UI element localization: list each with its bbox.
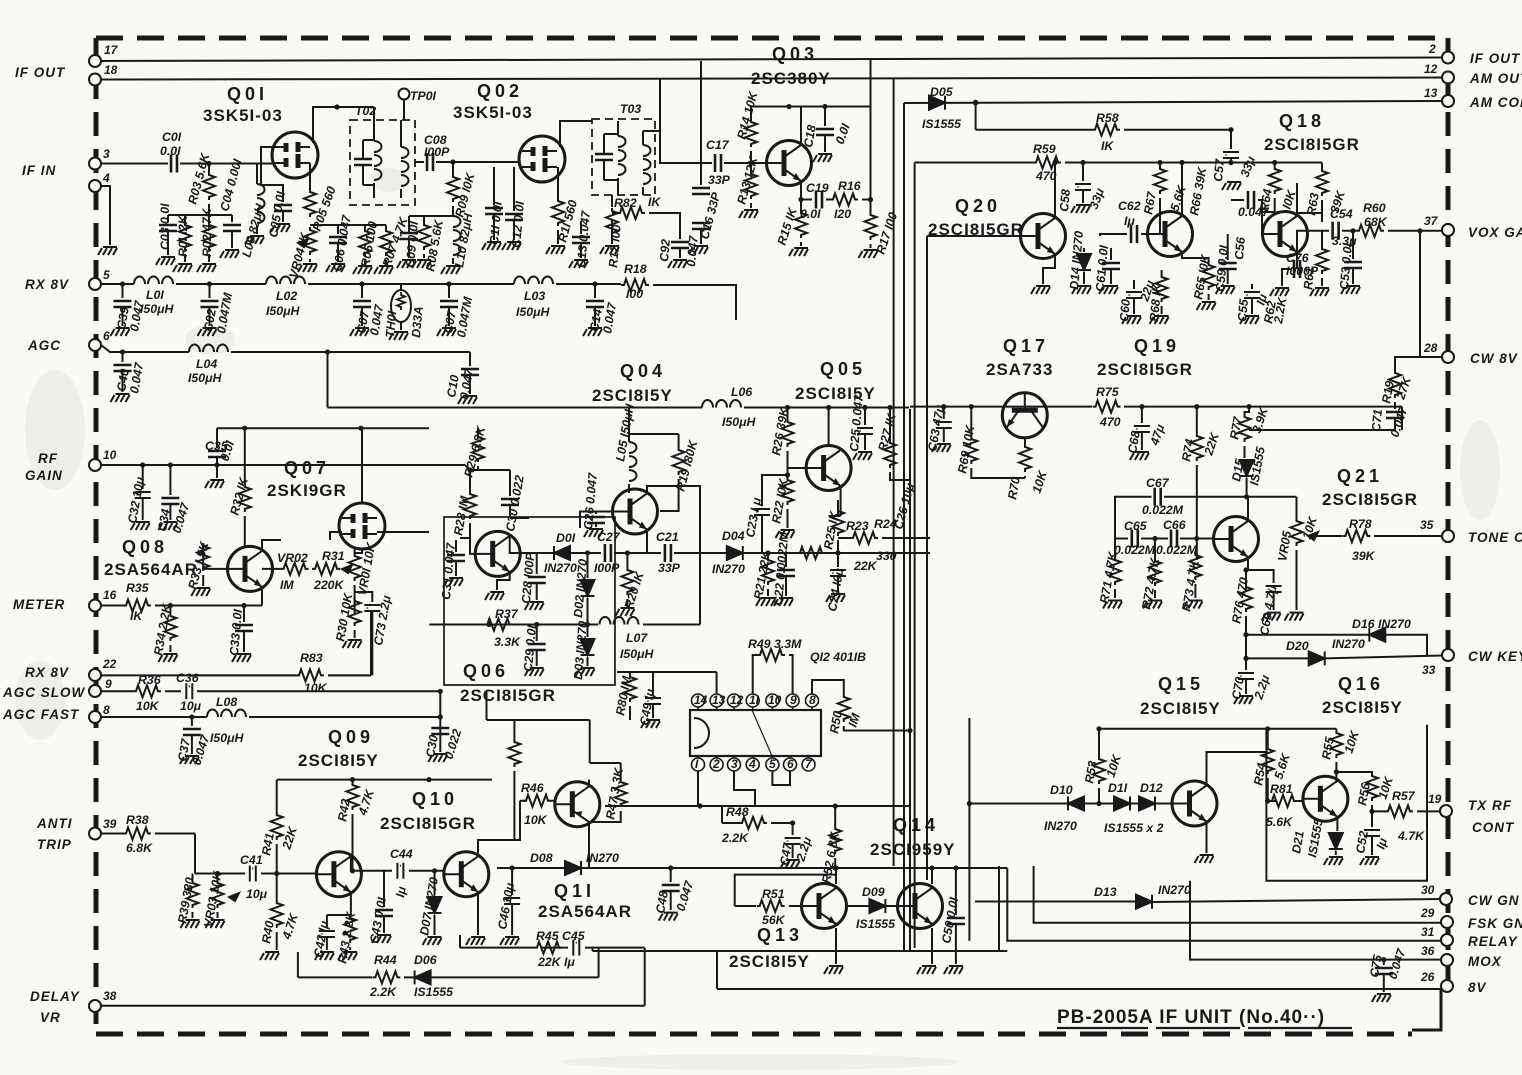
svg-text:37: 37 xyxy=(1424,214,1439,228)
resistor R80 xyxy=(617,672,653,674)
wire R59 rail xyxy=(915,162,1322,164)
svg-text:12: 12 xyxy=(1424,62,1438,76)
svg-text:C55: C55 xyxy=(1235,298,1251,322)
svg-text:8: 8 xyxy=(103,703,110,717)
svg-text:TRIP: TRIP xyxy=(37,837,72,852)
ground xyxy=(260,952,279,960)
svg-text:8: 8 xyxy=(809,693,816,707)
resistor R81 xyxy=(1268,800,1303,802)
svg-text:VR05: VR05 xyxy=(1275,530,1294,563)
capacitor C41 xyxy=(250,866,256,882)
wire RX8V rail xyxy=(101,284,736,320)
node xyxy=(214,462,219,467)
node xyxy=(438,714,443,719)
capacitor C44 xyxy=(397,863,403,879)
resistor R06 xyxy=(359,228,371,256)
svg-text:R44: R44 xyxy=(374,953,397,967)
node xyxy=(1194,404,1199,409)
resistor R50 xyxy=(838,694,850,722)
resistor R29 xyxy=(477,428,479,434)
resistor R15 xyxy=(800,200,802,211)
wire R51 feed xyxy=(735,875,836,906)
svg-text:R47 3.3K: R47 3.3K xyxy=(603,766,626,821)
wire Q13 bottom rail xyxy=(593,948,1008,951)
capacitor C26a xyxy=(596,512,613,528)
node xyxy=(1417,228,1422,233)
svg-text:D20: D20 xyxy=(1286,639,1309,653)
capacitor C14 xyxy=(594,284,596,298)
wire Q01 gate1 bias xyxy=(261,147,283,202)
capacitor C60 xyxy=(1133,280,1135,289)
svg-text:MOX: MOX xyxy=(1468,954,1502,969)
ground xyxy=(1234,696,1253,704)
transistor Q17 xyxy=(1002,393,1047,438)
capacitor C62 xyxy=(1131,225,1137,243)
svg-text:330: 330 xyxy=(876,549,897,563)
svg-text:2.2K: 2.2K xyxy=(1271,295,1290,325)
svg-text:T03: T03 xyxy=(620,102,641,116)
terminal 16 xyxy=(89,600,101,612)
wire Q21 emitter xyxy=(1246,557,1248,592)
svg-text:0.0I: 0.0I xyxy=(160,144,181,158)
resistor R56 xyxy=(1336,772,1372,775)
terminal 6 xyxy=(89,339,101,351)
svg-text:IS1555 x 2: IS1555 x 2 xyxy=(1104,821,1164,835)
svg-text:RX 8V: RX 8V xyxy=(25,665,69,680)
terminal 29 xyxy=(1441,916,1453,928)
ground xyxy=(1150,316,1169,324)
svg-text:2.2μ: 2.2μ xyxy=(793,835,814,864)
capacitor C55 xyxy=(1251,284,1253,289)
node xyxy=(833,865,838,870)
svg-text:C65: C65 xyxy=(1124,519,1147,533)
svg-text:2.2K: 2.2K xyxy=(369,985,397,999)
svg-text:2SCI959Y: 2SCI959Y xyxy=(870,840,956,859)
node xyxy=(486,622,491,627)
wire bus F xyxy=(909,409,911,951)
svg-text:IF IN: IF IN xyxy=(22,163,56,178)
T03 secondary xyxy=(643,145,651,184)
svg-text:L09 82μH: L09 82μH xyxy=(239,201,267,258)
box Q06 xyxy=(444,517,615,685)
transistor Q18 xyxy=(1263,212,1308,257)
capacitor C50 xyxy=(955,868,957,915)
wire pin1 xyxy=(697,771,699,806)
wire trip row xyxy=(195,873,317,875)
svg-text:0.047: 0.047 xyxy=(190,732,213,767)
wire Q15 collector xyxy=(1207,752,1268,785)
node xyxy=(350,777,355,782)
svg-text:D08: D08 xyxy=(530,851,553,865)
node xyxy=(1246,404,1251,409)
node xyxy=(798,197,803,202)
wire AGC FAST xyxy=(101,716,440,718)
svg-text:R58: R58 xyxy=(1096,111,1119,125)
node xyxy=(350,868,355,873)
diode D02 xyxy=(587,553,589,578)
wire AGC row xyxy=(101,345,470,408)
svg-text:DELAY: DELAY xyxy=(30,989,81,1004)
wire Q11 collector xyxy=(588,822,590,868)
terminal 13 xyxy=(1442,95,1454,107)
ground xyxy=(525,668,544,676)
svg-text:R45 C45: R45 C45 xyxy=(536,929,585,943)
ground xyxy=(1341,286,1360,294)
svg-text:C62: C62 xyxy=(1118,199,1141,213)
wire Q07 drain xyxy=(355,428,429,553)
pot VR02 xyxy=(262,540,281,551)
ground xyxy=(502,242,521,250)
svg-text:C60: C60 xyxy=(1117,298,1133,322)
resistor R18 xyxy=(621,279,649,291)
wire Q10 emitter xyxy=(477,892,479,935)
svg-text:30: 30 xyxy=(1421,883,1435,897)
svg-text:R78: R78 xyxy=(1349,517,1372,531)
resistor R60 xyxy=(1356,225,1384,237)
node xyxy=(1157,160,1162,165)
ground xyxy=(546,246,565,254)
resistor R35 xyxy=(123,600,151,612)
resistor R58 xyxy=(1092,124,1120,136)
wire Q19 emitter xyxy=(1182,252,1209,262)
svg-text:0.0I: 0.0I xyxy=(800,207,821,221)
wire Q06 emitter xyxy=(497,572,510,590)
svg-text:2SCI8I5Y: 2SCI8I5Y xyxy=(1140,699,1221,718)
wire METER xyxy=(101,605,245,607)
diode D13 xyxy=(1136,895,1152,909)
svg-text:2SCI8I5GR: 2SCI8I5GR xyxy=(1264,135,1360,154)
inductor L04 xyxy=(189,345,228,353)
svg-text:D21: D21 xyxy=(1289,830,1307,855)
svg-text:5.6K: 5.6K xyxy=(1168,183,1190,213)
svg-text:0.047: 0.047 xyxy=(1386,946,1409,981)
capacitor C69 xyxy=(1246,570,1274,583)
transistor Q14 xyxy=(898,884,943,929)
ground xyxy=(158,522,177,530)
node xyxy=(1244,494,1249,499)
resistor R32 xyxy=(244,428,246,484)
svg-text:TP0I: TP0I xyxy=(410,89,437,103)
wire Q18 base xyxy=(1262,212,1275,234)
node xyxy=(426,777,431,782)
ground xyxy=(389,332,408,340)
IC top pins xyxy=(692,694,819,710)
node xyxy=(585,550,590,555)
ground xyxy=(131,522,150,530)
ground xyxy=(739,210,758,218)
capacitor C67 xyxy=(1155,488,1161,506)
resistor R67 xyxy=(1159,163,1161,167)
svg-text:Q09: Q09 xyxy=(328,727,374,747)
wire node 13 xyxy=(904,101,1442,103)
capacitor C11 xyxy=(493,167,495,205)
svg-text:QI2 401IB: QI2 401IB xyxy=(810,650,866,664)
resistor R33 xyxy=(203,543,228,569)
svg-text:R52 6.8K: R52 6.8K xyxy=(819,830,842,885)
svg-text:L06: L06 xyxy=(731,385,752,399)
svg-text:0.0I: 0.0I xyxy=(833,121,853,146)
REGION A LABELS xyxy=(114,81,761,401)
RIGHT TERMINALS xyxy=(1420,42,1522,995)
inductor L05 xyxy=(628,484,630,493)
ground xyxy=(180,756,199,764)
ground xyxy=(1324,857,1343,865)
REGION D : middle Q04-Q08 xyxy=(101,400,930,685)
svg-text:Iμ: Iμ xyxy=(1124,214,1135,228)
svg-text:L03: L03 xyxy=(524,289,545,303)
wire bus E xyxy=(926,236,928,880)
svg-text:Q06: Q06 xyxy=(463,661,509,681)
resistor R21 xyxy=(767,553,769,557)
svg-text:R65 I0K: R65 I0K xyxy=(1191,253,1213,301)
svg-text:IN270: IN270 xyxy=(544,561,577,575)
svg-text:3SK5I-03: 3SK5I-03 xyxy=(203,106,283,125)
wire pin8 xyxy=(812,680,844,694)
ground xyxy=(485,592,504,600)
ground xyxy=(298,264,317,272)
node xyxy=(1243,632,1248,637)
wire to C08 xyxy=(415,161,519,163)
wire Q01 drain xyxy=(313,107,374,143)
svg-text:D0I: D0I xyxy=(556,531,576,545)
ground xyxy=(1072,286,1091,294)
svg-text:2SA564AR: 2SA564AR xyxy=(538,902,632,921)
resistor R02 xyxy=(203,222,215,250)
svg-text:8V: 8V xyxy=(1468,980,1487,995)
svg-text:I20: I20 xyxy=(834,207,851,221)
node xyxy=(1350,228,1355,233)
terminal 18 xyxy=(89,74,101,86)
terminal 30 xyxy=(1440,893,1452,905)
node xyxy=(1194,536,1199,541)
capacitor C39 xyxy=(122,284,124,298)
svg-text:36: 36 xyxy=(1421,944,1435,958)
svg-text:47μ: 47μ xyxy=(1147,422,1167,448)
svg-text:R49 3.3M: R49 3.3M xyxy=(748,637,802,651)
svg-text:2SA564AR: 2SA564AR xyxy=(104,560,198,579)
svg-text:2.2μ: 2.2μ xyxy=(1251,673,1272,702)
svg-text:GAIN: GAIN xyxy=(25,468,63,483)
ground xyxy=(173,264,192,272)
ground xyxy=(315,952,334,960)
resistor R31 xyxy=(312,568,313,570)
node xyxy=(120,281,125,286)
svg-text:IF OUT: IF OUT xyxy=(15,65,66,80)
terminal 5 xyxy=(89,278,101,290)
svg-text:Q02: Q02 xyxy=(477,81,523,101)
node xyxy=(1096,726,1101,731)
svg-text:IS1555: IS1555 xyxy=(414,985,453,999)
svg-text:IM: IM xyxy=(846,711,864,729)
svg-text:6: 6 xyxy=(103,329,110,343)
svg-text:4.7K: 4.7K xyxy=(279,911,301,942)
node xyxy=(1080,160,1085,165)
ground xyxy=(191,588,210,596)
svg-text:C03 0.0I: C03 0.0I xyxy=(158,203,172,250)
wire R45 row xyxy=(460,935,645,948)
capacitor C92 xyxy=(671,242,689,248)
resistor R43 xyxy=(344,915,356,943)
svg-text:C18: C18 xyxy=(801,124,819,149)
node xyxy=(450,159,455,164)
svg-text:2SCI8I5GR: 2SCI8I5GR xyxy=(928,220,1024,239)
svg-text:22K Iμ: 22K Iμ xyxy=(537,955,575,969)
wire Q20 emitter xyxy=(1043,254,1055,284)
resistor R64 xyxy=(1274,163,1276,167)
svg-text:Q05: Q05 xyxy=(820,359,866,379)
svg-text:IS1555: IS1555 xyxy=(1247,446,1268,487)
svg-text:C46 10μ: C46 10μ xyxy=(495,881,517,930)
resistor R76 xyxy=(1240,584,1252,612)
svg-text:33: 33 xyxy=(1422,663,1436,677)
wire 36 xyxy=(1190,881,1441,960)
capacitor C10 xyxy=(461,369,479,375)
svg-text:C12 0.0I: C12 0.0I xyxy=(509,200,527,248)
svg-text:17: 17 xyxy=(104,43,119,57)
capacitor C07b xyxy=(448,284,450,298)
ground xyxy=(1310,288,1329,296)
svg-text:4: 4 xyxy=(102,171,110,185)
ground xyxy=(466,937,485,945)
REGION A : IF strip xyxy=(98,61,767,408)
resistor R74 xyxy=(1196,407,1198,433)
transistor Q16 xyxy=(1303,776,1348,821)
capacitor C21 xyxy=(665,544,671,562)
resistor R53 xyxy=(1098,729,1100,756)
capacitor C03 xyxy=(159,225,177,231)
wire Q11 emitter xyxy=(588,780,590,786)
diode D12 xyxy=(1139,797,1155,811)
wire Q04 emitter xyxy=(646,530,648,553)
transistor Q04 xyxy=(613,489,658,534)
svg-text:22K: 22K xyxy=(853,559,878,573)
svg-text:IN270: IN270 xyxy=(1044,819,1077,833)
svg-text:6.8K: 6.8K xyxy=(126,841,153,855)
resistor R84 xyxy=(513,720,515,739)
svg-text:AGC SLOW: AGC SLOW xyxy=(2,685,86,700)
svg-text:C58: C58 xyxy=(1057,188,1073,212)
svg-text:R02 47K: R02 47K xyxy=(200,207,214,257)
svg-text:Q03: Q03 xyxy=(772,44,818,64)
svg-text:16: 16 xyxy=(103,588,117,602)
wire bus H xyxy=(998,866,1000,951)
svg-text:14: 14 xyxy=(694,693,708,707)
node xyxy=(953,865,958,870)
svg-text:IK: IK xyxy=(648,195,661,209)
svg-text:C23 I μ: C23 I μ xyxy=(743,496,764,539)
wire Q04 base xyxy=(580,512,613,529)
svg-text:4: 4 xyxy=(748,757,756,771)
svg-text:R37: R37 xyxy=(495,607,519,621)
node xyxy=(242,426,247,431)
wire collector rail xyxy=(751,106,871,108)
node xyxy=(334,104,339,109)
svg-text:R35: R35 xyxy=(126,581,149,595)
resistor R63 xyxy=(1321,163,1323,169)
resistor R17 xyxy=(870,200,872,213)
LONG WIRES xyxy=(101,58,1442,952)
svg-text:IN270: IN270 xyxy=(1332,637,1365,651)
node xyxy=(785,405,790,410)
ground xyxy=(1099,286,1118,294)
capacitor C30b xyxy=(431,728,449,734)
svg-text:C1I 0.0I: C1I 0.0I xyxy=(487,201,505,246)
svg-text:R61: R61 xyxy=(1301,266,1317,290)
svg-text:C47: C47 xyxy=(777,841,795,867)
resistor R25 xyxy=(837,500,839,516)
svg-text:13: 13 xyxy=(712,693,726,707)
FET Q01 xyxy=(272,132,318,178)
ground xyxy=(576,668,595,676)
transistor Q20 xyxy=(1021,214,1066,259)
svg-text:I00P: I00P xyxy=(594,561,620,575)
capacitor C23 xyxy=(762,475,788,506)
svg-text:22: 22 xyxy=(102,657,117,671)
capacitor C63 xyxy=(943,407,945,419)
ground xyxy=(374,266,393,274)
resistor R27 xyxy=(889,408,891,441)
wire Q19 collector xyxy=(1181,163,1183,217)
ground xyxy=(245,236,264,244)
svg-text:R21 22K: R21 22K xyxy=(751,549,773,600)
svg-text:L08: L08 xyxy=(216,695,237,709)
svg-text:C09 0.0I: C09 0.0I xyxy=(403,220,421,268)
ground xyxy=(826,594,845,602)
ground xyxy=(1197,302,1216,310)
node xyxy=(1334,769,1339,774)
wire TX RF xyxy=(1372,810,1440,812)
wire R84 row xyxy=(487,691,590,720)
terminal 12 xyxy=(1442,72,1454,84)
REGION G : Q12 IC and Q13 Q14 xyxy=(593,649,1442,989)
capacitor C33 xyxy=(243,606,245,623)
wire Q19 base xyxy=(1100,234,1148,236)
capacitor C61 xyxy=(1110,248,1112,260)
svg-text:R73 4.7K: R73 4.7K xyxy=(1179,558,1202,613)
inductor L02 xyxy=(266,277,305,285)
svg-text:470: 470 xyxy=(1099,415,1121,429)
ground xyxy=(220,250,239,258)
ground xyxy=(789,248,808,256)
transistor Q11 xyxy=(555,782,600,827)
svg-text:0.047: 0.047 xyxy=(170,500,193,535)
svg-text:TX RF: TX RF xyxy=(1468,798,1512,813)
svg-text:33μ: 33μ xyxy=(1238,154,1259,179)
transistor Q19 xyxy=(1148,212,1193,257)
svg-text:3SK5I-03: 3SK5I-03 xyxy=(453,103,533,122)
wire R12 xyxy=(611,195,613,240)
svg-text:C26 0.047: C26 0.047 xyxy=(581,471,600,530)
svg-text:35: 35 xyxy=(1420,518,1434,532)
capacitor C76 xyxy=(1282,252,1297,286)
ground xyxy=(326,264,345,272)
svg-text:C44: C44 xyxy=(390,847,413,861)
svg-text:470: 470 xyxy=(1035,169,1057,183)
diode D07 xyxy=(434,871,436,895)
wire D10 row xyxy=(969,803,1172,805)
resistor R59 xyxy=(1033,157,1061,169)
diode D21 xyxy=(1336,817,1338,831)
node xyxy=(785,472,790,477)
resistor R09 xyxy=(452,162,454,174)
svg-text:R48: R48 xyxy=(726,805,749,819)
ground xyxy=(437,328,456,336)
box Q16 xyxy=(1266,725,1427,881)
node xyxy=(189,714,194,719)
svg-text:R12 I00: R12 I00 xyxy=(606,224,624,268)
ground xyxy=(853,452,872,460)
svg-text:PB-2005A IF UNIT (Nο.40··): PB-2005A IF UNIT (Nο.40··) xyxy=(1057,1007,1325,1028)
